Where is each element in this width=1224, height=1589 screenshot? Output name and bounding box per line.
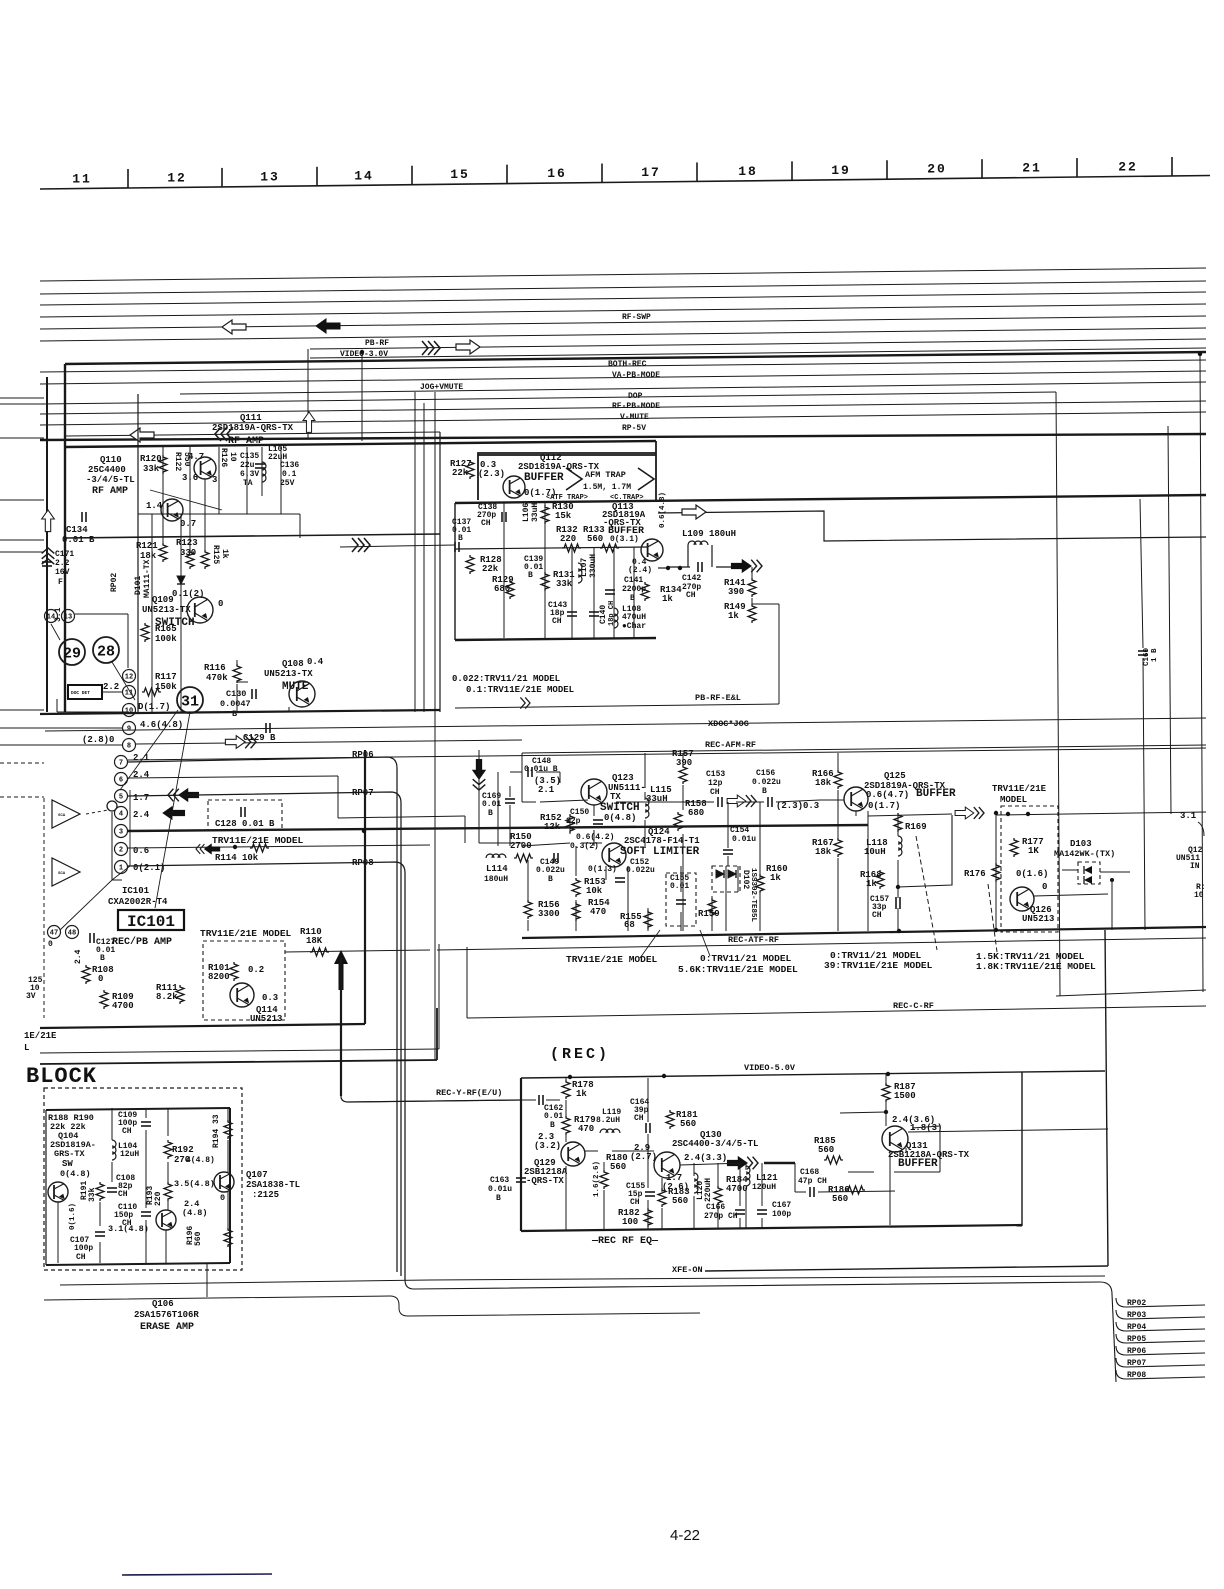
- resistor R155: [644, 910, 652, 929]
- capacitor C157: [895, 897, 897, 909]
- svg-text:3: 3: [119, 829, 123, 837]
- svg-text:0: 0: [98, 974, 103, 984]
- capacitor C137: [454, 542, 456, 552]
- wire q131 right: [908, 1129, 1108, 1132]
- vertical rail x47: [46, 377, 48, 712]
- svg-text:B: B: [488, 809, 493, 818]
- capacitor C142: [697, 562, 699, 572]
- svg-text:Q107: Q107: [246, 1170, 268, 1180]
- svg-text:R123: R123: [176, 538, 198, 548]
- vertical x424: [423, 403, 425, 712]
- resistor R128: [466, 555, 474, 574]
- svg-text:R176: R176: [964, 869, 986, 879]
- svg-text:2.4: 2.4: [74, 949, 83, 964]
- svg-text:11: 11: [125, 690, 133, 698]
- svg-text:R114 10k: R114 10k: [215, 853, 259, 863]
- svg-text:12: 12: [167, 170, 187, 185]
- dashed box C155: [666, 873, 696, 926]
- svg-text:15: 15: [450, 167, 470, 182]
- vertical x1140 with C160: [1140, 499, 1143, 648]
- capacitor C167: [757, 1209, 767, 1211]
- svg-text:D101: D101: [134, 576, 143, 595]
- svg-text:C163: C163: [490, 1176, 509, 1185]
- capacitor C163: [516, 1177, 526, 1179]
- svg-text:Q106: Q106: [152, 1299, 174, 1309]
- wire pin9: [0, 727, 122, 729]
- resistor R117: [142, 688, 161, 696]
- resistor R127: [466, 460, 474, 479]
- transistor Q107: [214, 1172, 234, 1192]
- svg-text:18k: 18k: [815, 847, 832, 857]
- svg-text:3.1: 3.1: [1180, 811, 1197, 821]
- svg-text:MA142WK-(TX): MA142WK-(TX): [1054, 849, 1115, 859]
- svg-text:TX: TX: [610, 792, 621, 802]
- svg-text:1.5M, 1.7M: 1.5M, 1.7M: [583, 483, 631, 492]
- svg-text:22k: 22k: [482, 564, 499, 574]
- svg-text:0(1.7): 0(1.7): [524, 488, 556, 498]
- svg-text:0(2.1): 0(2.1): [133, 863, 165, 873]
- svg-text:18: 18: [738, 164, 758, 179]
- svg-text:12uH: 12uH: [120, 1150, 139, 1159]
- vertical x479: [478, 750, 480, 843]
- REC box right vertical: [1021, 1072, 1023, 1226]
- diode D103a: [1084, 866, 1092, 874]
- svg-text:CH: CH: [686, 591, 696, 600]
- svg-text:0.6(4.7): 0.6(4.7): [866, 790, 909, 800]
- capacitor C153: [717, 797, 719, 807]
- capacitor C129: [265, 723, 267, 733]
- dashed box D103: [1078, 862, 1100, 884]
- svg-text:CH: CH: [872, 911, 882, 920]
- svg-text:B: B: [550, 1121, 555, 1130]
- dashed wire opamp: [86, 810, 108, 814]
- dashed box erase amp: [44, 1088, 242, 1270]
- svg-text:0.01u: 0.01u: [488, 1185, 512, 1194]
- svg-text:Q123: Q123: [612, 773, 634, 783]
- op-amp node circle: [107, 801, 117, 811]
- svg-text:0.01: 0.01: [524, 563, 543, 572]
- bus wire 2: [40, 281, 1206, 294]
- node line y567: [658, 567, 668, 569]
- svg-text:5: 5: [119, 794, 123, 802]
- svg-text:0(1.6): 0(1.6): [69, 1203, 77, 1230]
- svg-text:SCA: SCA: [58, 872, 66, 876]
- resistor R149: [748, 604, 756, 623]
- svg-text:0.01: 0.01: [544, 1112, 563, 1121]
- middle cluster wires: [522, 801, 536, 803]
- bus wire 14 RF-PB-MODE: [40, 401, 1206, 414]
- svg-text:C168: C168: [800, 1168, 819, 1177]
- svg-text:CH: CH: [630, 1198, 640, 1207]
- svg-text:CH: CH: [710, 788, 720, 797]
- svg-text:RF-SWP: RF-SWP: [622, 313, 651, 322]
- wire to C137: [340, 545, 455, 547]
- capacitor C154: [723, 849, 733, 851]
- diode D101: [177, 576, 185, 584]
- svg-text:C166: C166: [706, 1203, 725, 1212]
- svg-text:14: 14: [47, 614, 55, 622]
- svg-text:C140: C140: [599, 605, 608, 624]
- svg-text:BUFFER: BUFFER: [898, 1158, 938, 1170]
- svg-text:-3/4/5-TL: -3/4/5-TL: [86, 475, 135, 485]
- svg-text:REC-C-RF: REC-C-RF: [893, 1001, 934, 1011]
- svg-text:1k: 1k: [576, 1089, 587, 1099]
- svg-text:RF AMP: RF AMP: [92, 486, 128, 497]
- Q112 cluster verticals: [503, 503, 505, 638]
- bus wire 7 PB-RF: [310, 339, 1206, 349]
- svg-text:TA: TA: [243, 479, 253, 488]
- wire RP08: [128, 862, 405, 1280]
- bus wire 1: [40, 268, 1206, 281]
- capacitor C107: [95, 1231, 105, 1233]
- capacitor C134: [81, 512, 83, 522]
- svg-text:IN: IN: [1190, 862, 1200, 871]
- svg-text:0.2: 0.2: [248, 965, 264, 975]
- svg-text:20: 20: [927, 162, 947, 177]
- capacitor C135: [255, 463, 265, 465]
- dashed box Q114: [203, 941, 285, 1020]
- wire R149 right: [752, 603, 779, 605]
- svg-text:0: 0: [218, 599, 223, 609]
- svg-text:SOFT LIMITER: SOFT LIMITER: [620, 846, 700, 858]
- svg-text:13: 13: [260, 169, 280, 184]
- bus wire 15 V-MUTE: [40, 412, 1206, 425]
- resistor R111: [176, 985, 184, 1004]
- DOC DET box: [68, 685, 102, 699]
- wire REC-Y corner: [341, 1096, 521, 1102]
- svg-text:22u: 22u: [240, 461, 255, 470]
- svg-text:2SD1819A-QRS-TX: 2SD1819A-QRS-TX: [212, 423, 294, 433]
- svg-text:RP02: RP02: [110, 573, 119, 592]
- svg-text:0: 0: [48, 940, 53, 949]
- svg-text:2SC4400-3/4/5-TL: 2SC4400-3/4/5-TL: [672, 1139, 758, 1149]
- wire RP07: [1116, 1358, 1205, 1367]
- AFM TRAP chevron left: [566, 468, 582, 490]
- wire RP03: [1116, 1310, 1205, 1319]
- vertical x415: [414, 392, 416, 712]
- resistor R179: [562, 1116, 570, 1135]
- svg-text:C134: C134: [66, 525, 88, 535]
- resistor R114: [250, 844, 269, 852]
- resistor R121: [159, 543, 167, 562]
- svg-text:0.4: 0.4: [307, 657, 324, 667]
- vertical x362 Q111: [361, 352, 363, 441]
- svg-text:1SS302-TE85L: 1SS302-TE85L: [749, 868, 757, 923]
- resistor R109: [100, 990, 108, 1009]
- svg-text:D103: D103: [1070, 839, 1092, 849]
- svg-text:6: 6: [119, 777, 123, 785]
- svg-text:REC-ATF-RF: REC-ATF-RF: [728, 935, 779, 945]
- svg-text:TRV11E/21E: TRV11E/21E: [992, 784, 1047, 794]
- capacitor C109: [141, 1121, 151, 1123]
- capacitor C162: [538, 1095, 540, 1105]
- vertical x308 PB-RF: [307, 349, 309, 438]
- svg-text:3300: 3300: [538, 909, 560, 919]
- Q112 cluster bottom thick: [455, 638, 656, 640]
- svg-text:—REC RF EQ—: —REC RF EQ—: [591, 1236, 659, 1247]
- wire XFE-ON: [60, 1280, 430, 1285]
- resistor R169: [894, 813, 902, 832]
- chevron arrow: [215, 427, 233, 441]
- svg-text:33uH: 33uH: [531, 503, 540, 522]
- svg-text:TRV11E/21E MODEL: TRV11E/21E MODEL: [212, 835, 304, 846]
- capacitor C138: [501, 512, 503, 522]
- resistor R156: [524, 900, 532, 919]
- svg-text:REC-AFM-RF: REC-AFM-RF: [705, 740, 756, 750]
- svg-text:MODEL: MODEL: [1000, 795, 1027, 805]
- pin 1: [115, 861, 128, 874]
- svg-text:0.022u: 0.022u: [752, 778, 781, 787]
- svg-text:4.6(4.8): 4.6(4.8): [140, 720, 183, 730]
- rail y1062: [40, 1060, 437, 1064]
- svg-text:560: 560: [610, 1162, 626, 1172]
- resistor R153: [572, 878, 580, 897]
- svg-text:560: 560: [680, 1119, 696, 1129]
- op-amp triangle B: [52, 858, 80, 886]
- svg-text:2.4: 2.4: [133, 770, 150, 780]
- svg-text:1k: 1k: [220, 549, 229, 559]
- svg-text:1.4: 1.4: [146, 501, 163, 511]
- resistor R160: [756, 874, 764, 893]
- svg-text:BUFFER: BUFFER: [524, 472, 564, 484]
- middle cluster stem verticals: [593, 805, 595, 816]
- vertical D101 x181: [180, 514, 182, 602]
- svg-text:1k: 1k: [662, 594, 673, 604]
- svg-text:2SC4178-F14-T1: 2SC4178-F14-T1: [624, 836, 700, 846]
- chevron open arrow y802: [746, 795, 756, 807]
- chevron small near note: [520, 697, 530, 708]
- svg-text:2.4: 2.4: [133, 810, 150, 820]
- resistor R141: [748, 578, 756, 597]
- svg-text:470: 470: [590, 907, 606, 917]
- svg-text:28: 28: [97, 644, 115, 661]
- coil L119: [600, 1129, 620, 1133]
- svg-text:0.01u B: 0.01u B: [524, 765, 558, 774]
- svg-text:R165: R165: [155, 624, 177, 634]
- svg-text:TRV11E/21E MODEL: TRV11E/21E MODEL: [566, 954, 658, 965]
- wire pin8: [0, 744, 122, 746]
- capacitor C149: [553, 853, 555, 863]
- wire Q108 area: [236, 660, 238, 664]
- Q112 cluster left vertical: [454, 503, 456, 640]
- svg-text:D102: D102: [741, 870, 750, 889]
- svg-text:220: 220: [560, 534, 576, 544]
- pin 10: [123, 704, 136, 717]
- coil L107: [578, 563, 582, 583]
- coil L104: [112, 1140, 116, 1160]
- svg-text:(2.7): (2.7): [630, 1152, 657, 1162]
- svg-text:4-22: 4-22: [670, 1527, 700, 1544]
- svg-text:4700: 4700: [726, 1184, 748, 1194]
- svg-text:R121: R121: [136, 541, 158, 551]
- svg-text:13: 13: [64, 614, 72, 622]
- resistor R101: [230, 962, 238, 981]
- capacitor C150: [593, 819, 603, 821]
- svg-text:3.1(4.8): 3.1(4.8): [108, 1224, 149, 1234]
- svg-text:0.022:TRV11/21 MODEL: 0.022:TRV11/21 MODEL: [452, 674, 560, 684]
- svg-text:2.2: 2.2: [103, 682, 119, 692]
- svg-text:8: 8: [127, 743, 131, 751]
- svg-text:22: 22: [1118, 159, 1138, 174]
- svg-text:6.3V: 6.3V: [240, 470, 259, 479]
- wire Q131 emitter: [889, 1151, 891, 1225]
- box bottom right: [705, 1266, 1108, 1271]
- svg-text:Q111: Q111: [240, 413, 262, 423]
- svg-text:RP06: RP06: [352, 750, 374, 760]
- svg-text:10uH: 10uH: [864, 847, 886, 857]
- svg-text:PB-RF: PB-RF: [365, 339, 389, 348]
- svg-text:(REC): (REC): [550, 1046, 610, 1063]
- svg-text:ERASE AMP: ERASE AMP: [140, 1322, 194, 1333]
- bus wire 9 thick: [65, 352, 1206, 364]
- resistor R165: [141, 623, 149, 642]
- svg-text:0(3.1): 0(3.1): [610, 535, 639, 544]
- svg-text:3.5(4.8): 3.5(4.8): [174, 1179, 215, 1189]
- svg-text:0.022u: 0.022u: [536, 866, 565, 875]
- vertical x435 long: [434, 392, 436, 1060]
- svg-text:C153: C153: [706, 770, 725, 779]
- resistor R177: [1010, 838, 1018, 857]
- wire with arrows to RF AMP: [66, 432, 440, 436]
- svg-text:(2.8)0: (2.8)0: [82, 735, 114, 745]
- wire rec arrow: [764, 1162, 795, 1164]
- svg-text:R117: R117: [155, 672, 177, 682]
- wire R110: [285, 950, 430, 952]
- transistor Q126: [1010, 887, 1034, 911]
- svg-text:REC/PB AMP: REC/PB AMP: [112, 936, 172, 948]
- wire base line y547: [455, 547, 648, 549]
- svg-text:18K: 18K: [306, 936, 323, 946]
- svg-text:1k: 1k: [728, 611, 739, 621]
- vertical x1200: [1200, 354, 1203, 992]
- svg-text:3V: 3V: [26, 992, 36, 1001]
- svg-text:560: 560: [832, 1194, 848, 1204]
- rail REC-C-RF: [467, 1006, 1206, 1018]
- svg-text:4700: 4700: [112, 1001, 134, 1011]
- coil L120: [694, 1173, 698, 1193]
- svg-text:12p: 12p: [708, 779, 723, 788]
- RF AMP box left vertical: [137, 394, 139, 712]
- svg-text:(4.8): (4.8): [182, 1208, 208, 1218]
- bus wire 12 JOG+VMUTE: [180, 382, 1206, 394]
- bus wire XDOC*JOG: [45, 718, 1206, 731]
- coil L121: [746, 1166, 750, 1186]
- solid arrow on RF-SWP wire: [316, 319, 340, 333]
- svg-text:REC-Y-RF(E/U): REC-Y-RF(E/U): [436, 1088, 502, 1098]
- vertical x181 low: [180, 602, 182, 712]
- transistor Q113: [641, 539, 663, 561]
- svg-text:L106: L106: [522, 503, 531, 522]
- svg-text:RP06: RP06: [1127, 1347, 1146, 1356]
- dashed stub pin7: [0, 762, 44, 764]
- svg-text:XFE-ON: XFE-ON: [672, 1265, 703, 1275]
- vertical x898: [897, 813, 899, 836]
- svg-text:120uH: 120uH: [752, 1183, 776, 1192]
- svg-text:47: 47: [50, 930, 58, 938]
- svg-text:B: B: [528, 571, 533, 580]
- svg-text:CXA2002R-T4: CXA2002R-T4: [108, 897, 168, 907]
- wire pin13 right: [75, 613, 128, 615]
- resistor R185: [824, 1156, 843, 1164]
- svg-text:C130: C130: [226, 689, 246, 699]
- svg-text:CH: CH: [122, 1127, 132, 1136]
- vertical x439 up: [438, 944, 440, 1049]
- resistor R176b: [992, 863, 1000, 882]
- wire Q113 collector right: [658, 511, 1206, 541]
- up arrow on rail x47: [42, 510, 55, 532]
- transistor Q125: [844, 787, 868, 811]
- svg-text:0(1.7): 0(1.7): [868, 801, 900, 811]
- svg-text:8.2k: 8.2k: [156, 992, 178, 1002]
- circled number 29: [59, 639, 85, 665]
- bus wire REC-AFM-RF: [522, 745, 1206, 753]
- svg-text:1K: 1K: [1028, 846, 1039, 856]
- svg-text:0: 0: [1042, 882, 1047, 892]
- svg-text:18k: 18k: [140, 551, 157, 561]
- open arrow left: [130, 428, 154, 442]
- resistor R150: [514, 854, 533, 862]
- diode D101 wire: [151, 514, 153, 600]
- vertical x467: [466, 947, 468, 1018]
- rail y992: [1056, 990, 1206, 996]
- erase box left: [45, 1110, 47, 1265]
- svg-text:C150: C150: [570, 808, 589, 817]
- up arrow x308: [303, 412, 315, 432]
- wire RP05: [1116, 1334, 1205, 1343]
- resistor R196: [224, 1228, 232, 1247]
- chevron arrow on PB-RF wire: [422, 341, 440, 355]
- svg-text:V-MUTE: V-MUTE: [620, 413, 649, 422]
- svg-text:VIDEO-3.0V: VIDEO-3.0V: [340, 350, 388, 359]
- diode D103b: [1084, 876, 1092, 884]
- svg-text:C135: C135: [240, 452, 259, 461]
- pin 48: [66, 926, 79, 939]
- resistor R108: [82, 965, 90, 984]
- svg-text:0.7: 0.7: [180, 519, 196, 529]
- pin 9: [123, 722, 136, 735]
- svg-text:UN5213: UN5213: [1022, 914, 1054, 924]
- wire PB-RF-E&L: [455, 704, 779, 708]
- capacitor C155: [676, 899, 686, 901]
- svg-text:17: 17: [641, 165, 661, 180]
- svg-text:(2.4): (2.4): [628, 566, 652, 575]
- svg-text:390: 390: [728, 587, 744, 597]
- Q112 box: [478, 453, 656, 500]
- svg-text:IC101: IC101: [122, 886, 150, 896]
- svg-text:1.6(2.6): 1.6(2.6): [593, 1161, 601, 1197]
- wire RP07: [128, 792, 401, 1276]
- svg-text:7: 7: [119, 760, 123, 768]
- svg-text:100k: 100k: [155, 634, 177, 644]
- erase box top rail: [46, 1108, 230, 1110]
- wire lower-left bottom: [44, 1296, 700, 1316]
- thin rail y1051: [40, 1049, 439, 1053]
- svg-text:5.6K:TRV11E/21E MODEL: 5.6K:TRV11E/21E MODEL: [678, 964, 798, 975]
- thick rail y1026: [40, 1024, 365, 1028]
- resistor R110: [310, 948, 329, 956]
- wire q106 vertical: [206, 1263, 208, 1297]
- svg-text:220: 220: [154, 1191, 163, 1206]
- capacitor C152: [615, 877, 625, 879]
- open arrow right q113: [682, 505, 706, 519]
- svg-text:SW: SW: [62, 1159, 73, 1169]
- svg-text:1k: 1k: [770, 873, 781, 883]
- svg-text:470: 470: [578, 1124, 594, 1134]
- open arrow on PB-RF wire: [456, 340, 480, 354]
- REC box bottom: [521, 1225, 1022, 1231]
- svg-text:MA111-TX: MA111-TX: [143, 559, 152, 598]
- svg-text:B: B: [496, 1194, 501, 1203]
